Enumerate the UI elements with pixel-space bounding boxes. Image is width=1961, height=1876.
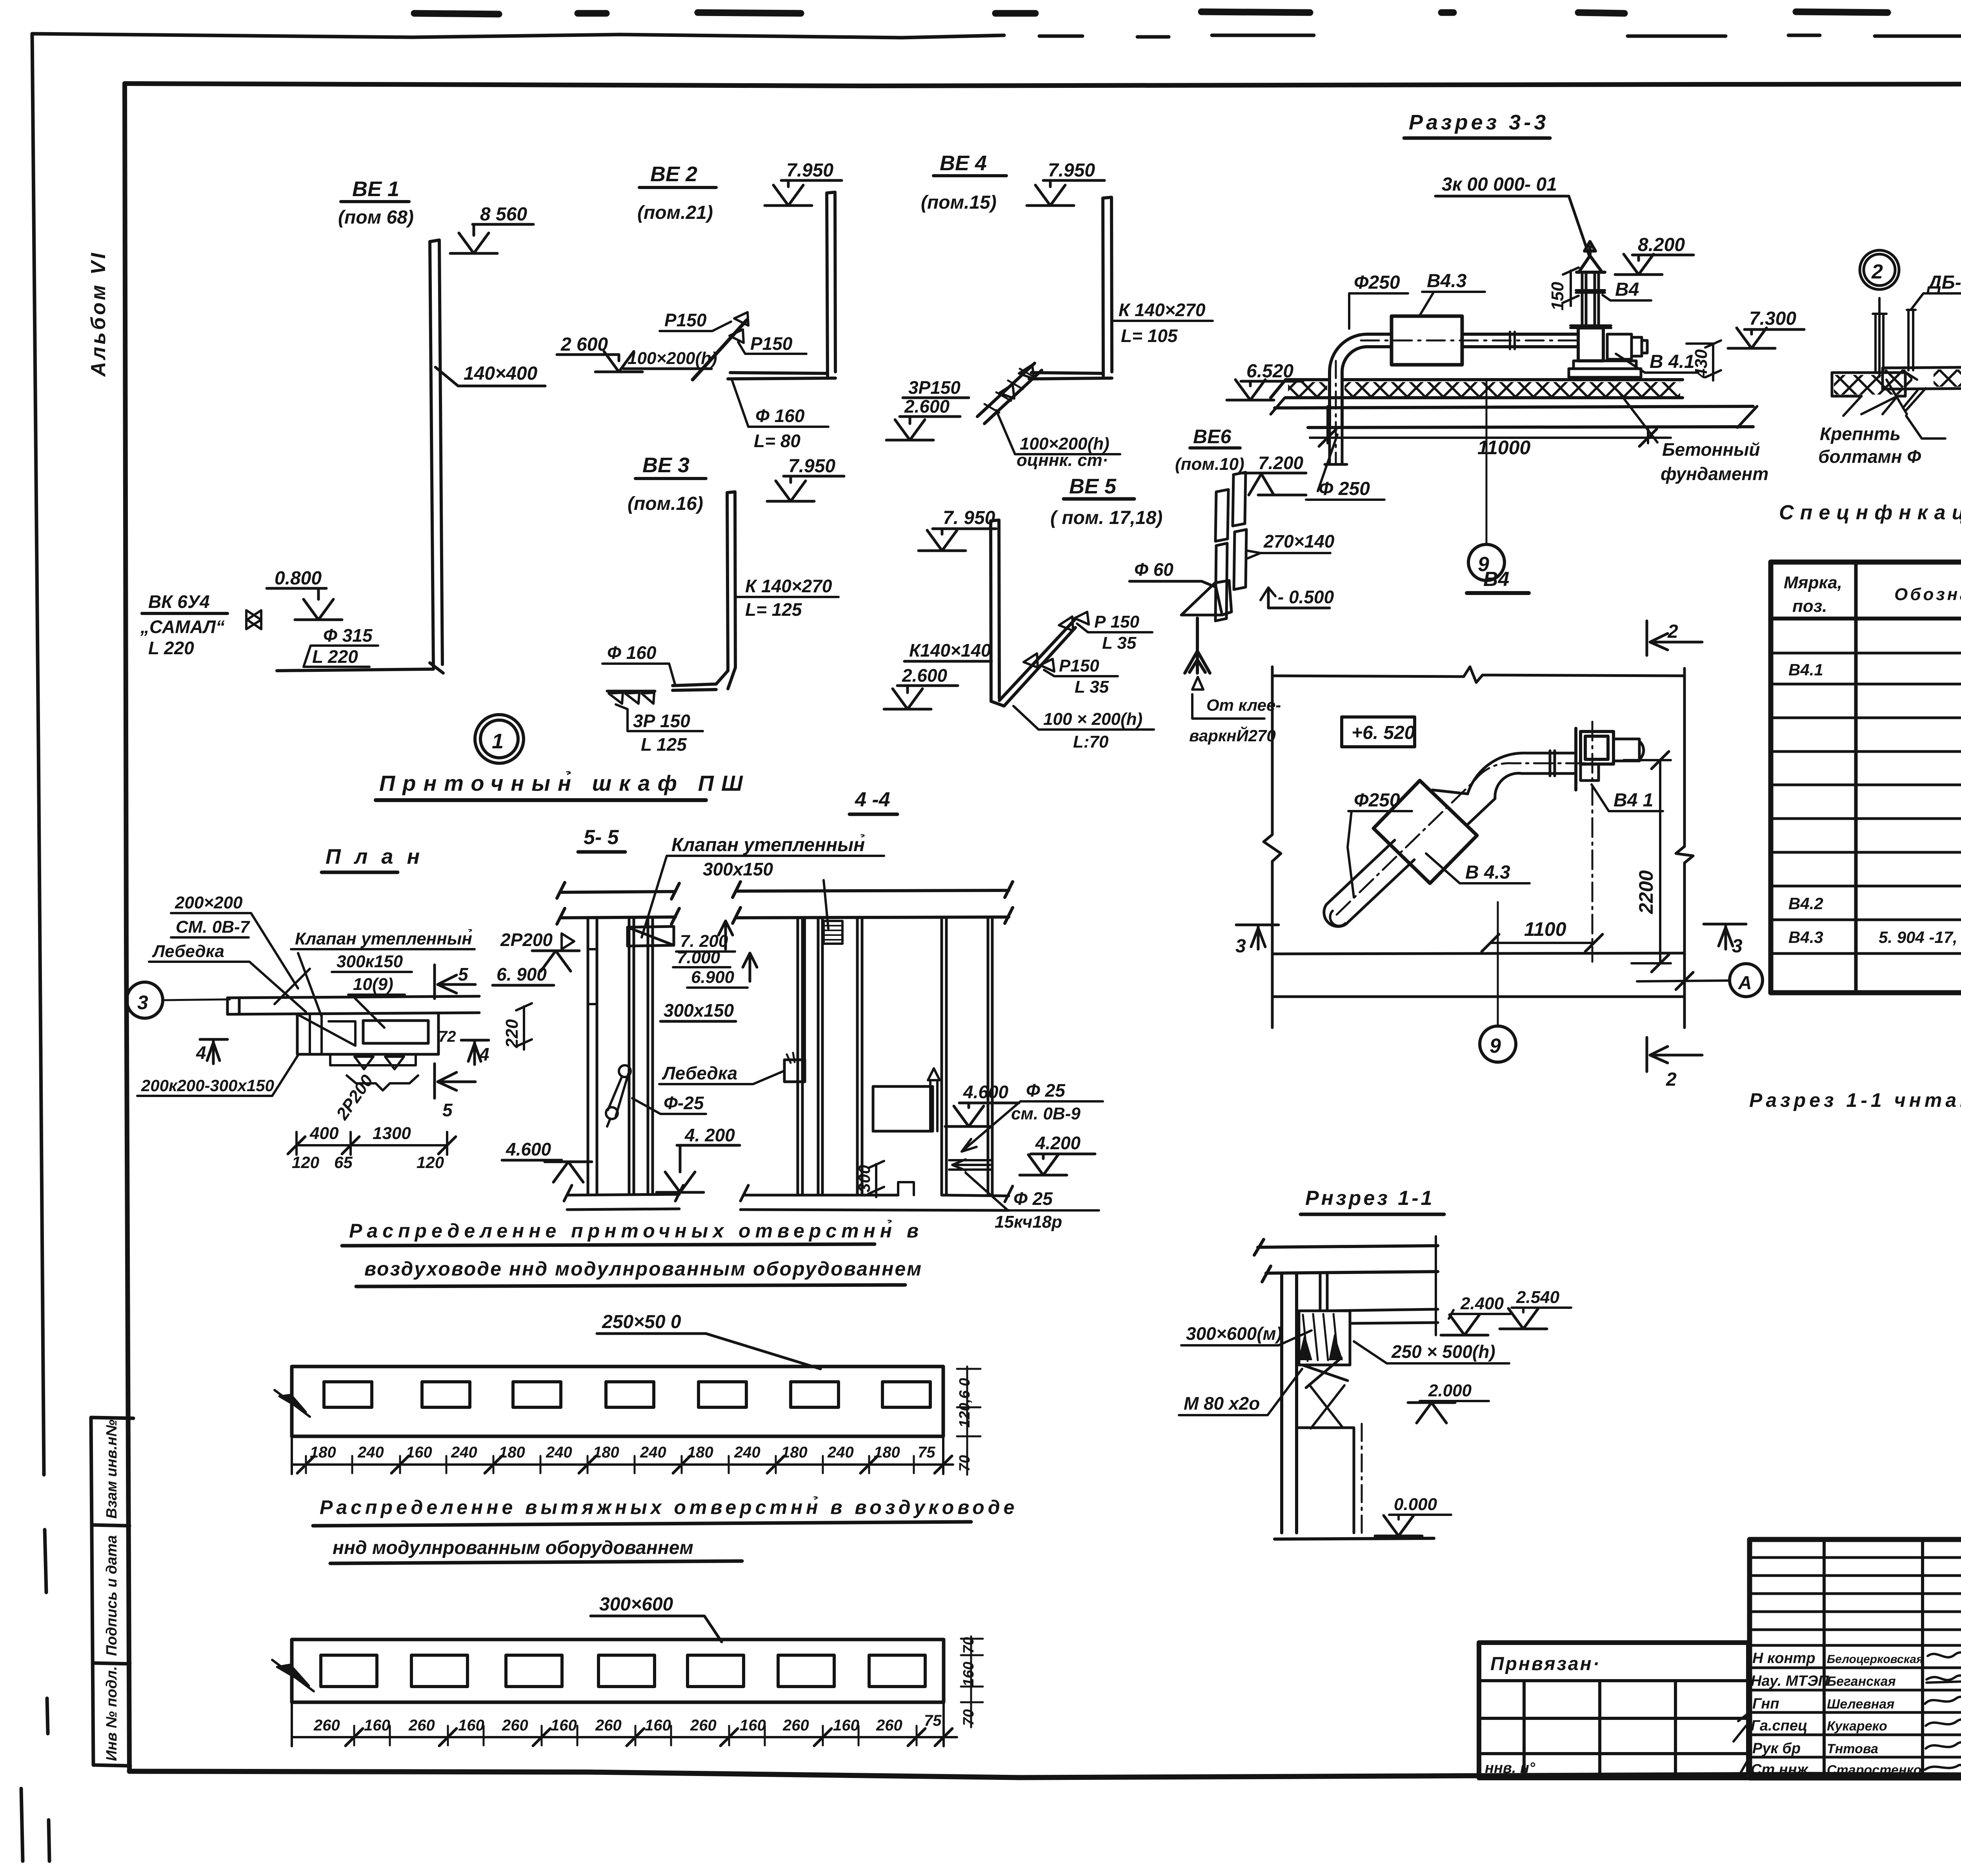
- signature table columns: [1824, 1539, 1961, 1778]
- s11 hatched connector: [1299, 1311, 1350, 1365]
- strip2 break arrow: [277, 1665, 309, 1686]
- VE6 pyramid: [1181, 580, 1232, 615]
- svg-text:3Р 150: 3Р 150: [633, 711, 690, 731]
- svg-text:Рук бр: Рук бр: [1752, 1740, 1801, 1757]
- svg-text:400: 400: [309, 1124, 339, 1143]
- grid circle 2: [1864, 254, 1895, 286]
- svg-text:7. 950: 7. 950: [943, 508, 995, 528]
- svg-text:260: 260: [690, 1717, 717, 1734]
- svg-text:ВК 6У4: ВК 6У4: [148, 591, 210, 612]
- svg-text:3: 3: [1235, 936, 1246, 957]
- svg-text:3к 00 000- 01: 3к 00 000- 01: [1442, 174, 1557, 195]
- svg-text:150: 150: [1548, 282, 1567, 311]
- VE2 duct foot: [728, 373, 835, 379]
- svg-text:- 0.500: - 0.500: [1278, 587, 1334, 607]
- V4 plan centerline: [1337, 722, 1592, 962]
- svg-text:100 × 200(h): 100 × 200(h): [1043, 710, 1142, 729]
- svg-text:8 560: 8 560: [480, 204, 527, 225]
- 4-4 grille: [824, 921, 842, 944]
- label 100x200 ocink VE4: [1017, 434, 1110, 470]
- spec table columns: [1856, 562, 1961, 993]
- plan valve slash: [275, 953, 322, 1017]
- svg-text:260: 260: [313, 1717, 340, 1734]
- svg-text:2Р200: 2Р200: [500, 930, 553, 950]
- page edge scan mark bottom left: [21, 1789, 23, 1861]
- svg-text:К 140×270: К 140×270: [1119, 300, 1206, 320]
- privyazan box: [1479, 1643, 1748, 1778]
- svg-text:2Р200: 2Р200: [332, 1071, 377, 1124]
- svg-text:L 220: L 220: [148, 638, 194, 658]
- svg-text:(пом.15): (пом.15): [921, 192, 997, 213]
- svg-text:300: 300: [855, 1165, 873, 1192]
- section mark 3 right: [1704, 924, 1746, 949]
- strip1 hole 4: [606, 1382, 654, 1407]
- svg-text:ВЕ 2: ВЕ 2: [650, 162, 697, 186]
- svg-text:Разрез 3-3: Разрез 3-3: [1409, 111, 1549, 134]
- svg-text:L 35: L 35: [1075, 677, 1109, 697]
- svg-text:Ф 25: Ф 25: [1013, 1188, 1053, 1209]
- V4 plan silencer rotated: [1373, 781, 1477, 883]
- s11 lower step: [1297, 1428, 1354, 1533]
- svg-text:2.600: 2.600: [902, 665, 948, 686]
- svg-text:воздуховоде ннд модулнрованным: воздуховоде ннд модулнрованным оборудова…: [364, 1258, 922, 1280]
- svg-text:„САМАЛ“: „САМАЛ“: [140, 617, 225, 637]
- svg-text:3: 3: [1732, 936, 1743, 957]
- inner frame left: [125, 84, 129, 1771]
- s33 dim 11000: [1310, 406, 1671, 443]
- s33 chimney cap: [1577, 242, 1605, 272]
- svg-text:75: 75: [918, 1444, 935, 1461]
- label ot klee-varki: [1189, 696, 1281, 745]
- svg-text:ВЕ 4: ВЕ 4: [940, 151, 987, 175]
- svg-text:75: 75: [924, 1712, 942, 1729]
- strip1 break arrow: [279, 1395, 306, 1412]
- strip2 hole 7: [869, 1655, 925, 1687]
- svg-text:В4: В4: [1615, 279, 1639, 300]
- s11 cross mark: [1309, 1385, 1344, 1428]
- svg-text:4.600: 4.600: [963, 1082, 1009, 1102]
- 4-4 small duct with up arrow: [928, 1068, 940, 1131]
- VK 6U4 SAMAL L220 label: [140, 591, 225, 658]
- svg-text:250 × 500(h): 250 × 500(h): [1391, 1341, 1495, 1362]
- svg-text:2: 2: [1871, 260, 1883, 283]
- 4-4 duct at floor: [949, 1159, 992, 1170]
- strip1 hole 5: [699, 1382, 746, 1407]
- strip1 dim chain: [292, 1436, 953, 1474]
- riser VE2 label: [637, 162, 713, 223]
- svg-text:От клее-: От клее-: [1206, 696, 1281, 714]
- s33 slab lines: [1271, 380, 1753, 428]
- strip1 hole 2: [422, 1382, 470, 1407]
- svg-text:180: 180: [781, 1444, 808, 1461]
- svg-text:ДБ-38: ДБ-38: [1926, 272, 1961, 293]
- s11 wall verticals: [1282, 1273, 1297, 1533]
- riser VE4 label: [921, 151, 997, 213]
- svg-text:240: 240: [734, 1444, 760, 1461]
- sheet outer border top: [32, 34, 1004, 38]
- svg-text:160: 160: [406, 1444, 432, 1461]
- svg-text:фундамент: фундамент: [1661, 464, 1768, 484]
- V4 plan fan unit: [1576, 728, 1614, 790]
- svg-text:Кукареко: Кукареко: [1827, 1719, 1887, 1734]
- svg-text:В4: В4: [1483, 568, 1510, 591]
- VE3 duct foot elbow: [673, 668, 735, 690]
- svg-text:1300: 1300: [373, 1124, 411, 1143]
- VE4 duct riser: [1103, 197, 1112, 376]
- 5-5 valve box: [628, 926, 674, 946]
- svg-text:2 600: 2 600: [560, 334, 608, 355]
- s33 duct below roof dashed: [1325, 428, 1347, 464]
- s11 valve flap: [1302, 1358, 1348, 1388]
- strip1 hole 6: [791, 1382, 839, 1407]
- svg-text:Р150: Р150: [1059, 656, 1099, 675]
- title block outer border: [1750, 1539, 1961, 1778]
- svg-text:Н контр: Н контр: [1752, 1650, 1815, 1667]
- svg-text:Клапан утепленнын̉: Клапан утепленнын̉: [295, 929, 472, 948]
- svg-text:240: 240: [451, 1444, 477, 1461]
- svg-text:7.950: 7.950: [786, 160, 833, 181]
- svg-text:Распределенне прнточных отверс: Распределенне прнточных отверстнн̉ в: [349, 1219, 923, 1242]
- label K140x270 L125 VE3: [745, 576, 832, 620]
- 4-4 winch box: [784, 1060, 805, 1082]
- svg-text:7.200: 7.200: [1258, 453, 1304, 473]
- svg-text:L:70: L:70: [1073, 732, 1109, 751]
- svg-text:2: 2: [1667, 621, 1678, 642]
- svg-text:250×50 0: 250×50 0: [602, 1312, 681, 1332]
- svg-text:Лебедка: Лебедка: [662, 1063, 737, 1083]
- grid circle 9 plan: [1480, 1026, 1516, 1062]
- plan duct horizontal: [227, 996, 479, 1014]
- VE6 up arrow flow: [1185, 618, 1210, 673]
- svg-text:Клапан утепленнын̉: Клапан утепленнын̉: [671, 834, 865, 855]
- spec row V4.2: [1788, 894, 1961, 913]
- svg-text:L= 80: L= 80: [754, 431, 800, 451]
- svg-text:260: 260: [595, 1717, 622, 1734]
- svg-text:Беганская: Беганская: [1827, 1674, 1896, 1689]
- plan labels klapan uteplenny 300x150 10(9): [295, 929, 472, 994]
- svg-text:7.300: 7.300: [1749, 308, 1796, 329]
- grille triangles VE2: [729, 312, 748, 343]
- svg-text:2: 2: [1666, 1069, 1677, 1090]
- left stamp column box: [91, 1417, 133, 1766]
- s11 right ext line: [1435, 1236, 1437, 1335]
- deflector symbol: [246, 610, 261, 629]
- label 100x200 L70 VE5: [1043, 710, 1142, 751]
- svg-text:120,6 0: 120,6 0: [957, 1378, 973, 1428]
- svg-text:4. 200: 4. 200: [684, 1125, 735, 1145]
- svg-text:140×400: 140×400: [464, 363, 538, 384]
- svg-text:Р150: Р150: [750, 333, 793, 354]
- svg-text:260: 260: [502, 1717, 528, 1734]
- svg-text:Подпись и дата: Подпись и дата: [104, 1535, 120, 1656]
- svg-text:Обозначенне: Обозначенне: [1894, 585, 1961, 604]
- V4 plan right dim line: [1676, 668, 1693, 1028]
- svg-text:ннв. н°: ннв. н°: [1485, 1760, 1535, 1776]
- svg-text:0.800: 0.800: [275, 568, 322, 589]
- s33 elbow: [1330, 334, 1367, 428]
- s33 silencer: [1392, 316, 1462, 365]
- svg-text:(пом 68): (пом 68): [338, 207, 414, 228]
- svg-text:(пом.10): (пом.10): [1175, 455, 1244, 474]
- s11 duct drop in wall: [1320, 1273, 1327, 1310]
- svg-text:В 4.3: В 4.3: [1465, 862, 1510, 883]
- duct strip 1 outline: [292, 1367, 943, 1436]
- strip2 hole 1: [321, 1655, 377, 1687]
- svg-text:L 125: L 125: [641, 734, 687, 755]
- svg-text:160: 160: [364, 1717, 390, 1734]
- s33 chimney: [1582, 272, 1599, 328]
- svg-text:5: 5: [458, 964, 469, 984]
- svg-text:Ф 315: Ф 315: [323, 625, 373, 646]
- label f315 L220: [312, 625, 373, 667]
- svg-text:К140×140: К140×140: [909, 640, 991, 661]
- svg-text:180: 180: [499, 1444, 525, 1461]
- s11 top slab: [1254, 1239, 1438, 1282]
- svg-text:Шелевная: Шелевная: [1827, 1697, 1894, 1712]
- svg-text:300×600: 300×600: [599, 1594, 673, 1615]
- svg-text:Ф 60: Ф 60: [1134, 559, 1173, 580]
- inner frame bottom: [129, 1771, 1961, 1778]
- svg-text:3Р150: 3Р150: [908, 377, 960, 398]
- strip1 hole 1: [324, 1382, 372, 1407]
- spec header texts: [1784, 573, 1961, 616]
- plan brace: [347, 1075, 418, 1090]
- svg-text:180: 180: [874, 1444, 900, 1461]
- svg-text:(пом.16): (пом.16): [628, 493, 703, 514]
- svg-text:К 140×270: К 140×270: [745, 576, 832, 596]
- spec table header row line: [1771, 617, 1961, 620]
- svg-text:болтамн Ф: болтамн Ф: [1818, 446, 1921, 467]
- strip1 hole 3: [513, 1382, 561, 1407]
- strip2 hole 6: [778, 1655, 834, 1687]
- svg-text:Крепнть: Крепнть: [1820, 424, 1901, 444]
- spec table outer: [1771, 562, 1961, 993]
- s11 ground line: [1275, 1538, 1434, 1539]
- svg-text:L= 105: L= 105: [1121, 326, 1178, 346]
- svg-text:Ф250: Ф250: [1354, 272, 1400, 293]
- svg-text:4 -4: 4 -4: [855, 788, 890, 811]
- svg-text:100×200(h): 100×200(h): [628, 349, 717, 368]
- riser VE5 label: [1050, 475, 1162, 528]
- svg-text:9: 9: [1490, 1035, 1501, 1057]
- spec row V4.3: [1788, 928, 1961, 946]
- grid circle 3: [127, 982, 163, 1018]
- label K140x270 L105 VE4: [1119, 300, 1206, 346]
- svg-text:Прнвязан·: Прнвязан·: [1490, 1654, 1601, 1674]
- 4-4 walls: [798, 917, 992, 1194]
- VE4 grille diagonal with hatch: [977, 363, 1042, 424]
- label betonny fundament: [1661, 439, 1768, 484]
- V4 plan elbow: [1432, 753, 1526, 825]
- VE5 grille diagonal: [991, 619, 1075, 706]
- svg-text:2.000: 2.000: [1428, 1381, 1472, 1400]
- svg-text:Ф 25: Ф 25: [1026, 1080, 1066, 1101]
- grid circle 9 s33: [1468, 544, 1504, 580]
- svg-text:Инв № подл.: Инв № подл.: [104, 1666, 120, 1761]
- riser VE3 label: [628, 453, 703, 514]
- svg-text:7.950: 7.950: [1048, 160, 1095, 181]
- svg-text:Ф-25: Ф-25: [664, 1093, 704, 1113]
- V4 plan diagonal duct lower + cap: [1326, 840, 1414, 924]
- svg-text:Спецнфнкацня вентнляцнонных: Спецнфнкацня вентнляцнонных Установок: [1779, 501, 1961, 524]
- 5-5 pulley cable: [619, 1065, 631, 1077]
- section mark 5 bottom: [435, 1064, 475, 1098]
- svg-text:ВЕ 3: ВЕ 3: [642, 453, 689, 477]
- signature rows: [1750, 1645, 1961, 1757]
- strip2 hole 5: [688, 1655, 744, 1687]
- svg-text:В 4.1: В 4.1: [1650, 351, 1695, 372]
- VE6 slats: [1215, 472, 1246, 621]
- s33 roof hatched band: [1286, 380, 1683, 398]
- section mark 4 right: [461, 1040, 489, 1064]
- svg-text:4: 4: [479, 1044, 489, 1064]
- svg-text:2200: 2200: [1635, 870, 1657, 914]
- section mark 4 left: [200, 1039, 227, 1064]
- strip1 hole 7: [882, 1382, 930, 1407]
- plan labels 200x200 sm OV-7 lebedka: [152, 893, 251, 961]
- svg-text:Гнп: Гнп: [1752, 1696, 1779, 1712]
- svg-text:5. 904 -17, вып.1: 5. 904 -17, вып.1: [1879, 928, 1961, 946]
- svg-text:72: 72: [438, 1028, 456, 1045]
- page edge scan dashes top: [414, 12, 1961, 15]
- svg-text:Р150: Р150: [664, 310, 707, 330]
- s11 horizontal duct: [1327, 1309, 1438, 1323]
- s33 fan base: [1569, 361, 1641, 377]
- svg-text:Рнзрез 1-1: Рнзрез 1-1: [1305, 1187, 1434, 1210]
- duct strip 2 outline: [292, 1639, 944, 1702]
- svg-text:Взам инв.н№: Взам инв.н№: [104, 1419, 120, 1519]
- 4-4 top slab: [733, 882, 1013, 923]
- svg-text:180: 180: [687, 1444, 713, 1461]
- VE5 duct riser: [991, 520, 999, 701]
- svg-text:Альбом VI: Альбом VI: [87, 251, 110, 377]
- svg-text:L 35: L 35: [1102, 633, 1137, 653]
- svg-text:260: 260: [782, 1717, 809, 1734]
- sheet outer border left: [32, 34, 44, 1475]
- svg-text:270×140: 270×140: [1263, 531, 1335, 551]
- svg-text:6. 900: 6. 900: [497, 964, 547, 984]
- spec row V4.1: [1788, 660, 1961, 846]
- svg-text:70: 70: [957, 1455, 973, 1472]
- svg-text:300х150: 300х150: [703, 859, 773, 879]
- bolt roof band: [1832, 373, 1905, 396]
- label krepit boltami: [1818, 424, 1921, 467]
- svg-text:4: 4: [196, 1043, 206, 1063]
- 5-5 walls: [588, 918, 653, 1194]
- svg-text:2.540: 2.540: [1516, 1288, 1560, 1307]
- strip2 hole 4: [598, 1655, 655, 1687]
- svg-text:1100: 1100: [1524, 918, 1566, 940]
- svg-text:240: 240: [357, 1444, 384, 1461]
- svg-text:см. 0В-9: см. 0В-9: [1011, 1104, 1081, 1123]
- svg-text:300к150: 300к150: [337, 952, 403, 971]
- svg-text:Лебедка: Лебедка: [152, 942, 224, 961]
- svg-text:11000: 11000: [1477, 437, 1531, 459]
- section mark 3 left: [1236, 925, 1279, 949]
- VE4 duct foot: [1029, 373, 1112, 379]
- svg-text:ВЕ 5: ВЕ 5: [1069, 475, 1117, 498]
- svg-text:ннд модулнрованным оборудован: ннд модулнрованным оборудованнем: [333, 1538, 693, 1558]
- svg-text:Разрез 1-1 чнтать совместно с: Разрез 1-1 чнтать совместно с лнстом 0В1…: [1749, 1089, 1961, 1111]
- grid line 9 s33: [1486, 380, 1488, 544]
- 4-4 floor: [740, 1195, 1009, 1210]
- svg-text:Ф 160: Ф 160: [755, 406, 805, 426]
- V4 plan top boundary: [1272, 667, 1684, 682]
- svg-text:260: 260: [408, 1717, 435, 1734]
- s33 motor: [1607, 334, 1647, 359]
- s33 fan box: [1578, 328, 1603, 361]
- svg-text:варкнЙ270: варкнЙ270: [1189, 726, 1276, 745]
- svg-text:160: 160: [551, 1717, 577, 1734]
- VE2 grille diagonal: [693, 320, 747, 380]
- V4 plan duct from fan: [1522, 751, 1576, 776]
- label 3R150 L125 VE3: [633, 711, 690, 755]
- svg-text:Ф 250: Ф 250: [1319, 479, 1370, 499]
- riser VE1 label: [338, 177, 414, 228]
- svg-text:4.200: 4.200: [1035, 1133, 1081, 1153]
- svg-text:1: 1: [492, 730, 504, 753]
- inner frame top: [125, 84, 1961, 86]
- svg-text:0.000: 0.000: [1394, 1495, 1437, 1514]
- svg-text:120: 120: [292, 1153, 319, 1172]
- svg-text:(пом.21): (пом.21): [637, 202, 713, 223]
- svg-text:М 80 х2о: М 80 х2о: [1184, 1393, 1260, 1414]
- svg-text:Ф 160: Ф 160: [607, 642, 657, 663]
- strip2 dim chain: [292, 1702, 957, 1746]
- VE3 duct riser: [727, 492, 735, 671]
- svg-text:6.900: 6.900: [691, 968, 735, 987]
- strip2 hole 2: [411, 1655, 468, 1687]
- svg-text:300х150: 300х150: [664, 1000, 734, 1021]
- svg-text:П л а н: П л а н: [326, 845, 424, 868]
- svg-text:поз.: поз.: [1792, 597, 1827, 616]
- svg-text:Нау. МТЭП: Нау. МТЭП: [1751, 1673, 1829, 1689]
- svg-text:160: 160: [645, 1717, 671, 1734]
- svg-text:Га.спец: Га.спец: [1751, 1718, 1808, 1734]
- svg-text:120: 120: [417, 1153, 444, 1172]
- svg-text:160: 160: [458, 1717, 484, 1734]
- svg-text:3: 3: [137, 992, 148, 1014]
- svg-text:200к200-300х150: 200к200-300х150: [141, 1076, 274, 1095]
- svg-text:В4.2: В4.2: [1788, 894, 1823, 913]
- grid line 9 plan: [1497, 902, 1499, 1027]
- 5-5 floor: [564, 1185, 683, 1210]
- section mark 2 bottom: [1647, 1037, 1702, 1072]
- label F160 L80 VE2: [754, 406, 805, 451]
- svg-text:180: 180: [593, 1444, 619, 1461]
- svg-text:Белоцерковская: Белоцерковская: [1827, 1653, 1923, 1666]
- svg-text:7.000: 7.000: [677, 948, 720, 967]
- svg-text:240: 240: [640, 1444, 666, 1461]
- svg-text:160: 160: [740, 1717, 766, 1734]
- svg-text:65: 65: [334, 1153, 353, 1172]
- plan cabinet box: [297, 1014, 438, 1054]
- svg-text:2.600: 2.600: [904, 396, 950, 417]
- svg-text:300×600(м): 300×600(м): [1186, 1323, 1282, 1344]
- svg-text:ВЕ 1: ВЕ 1: [352, 177, 399, 201]
- riser VE6 label: [1175, 426, 1244, 474]
- svg-text:200×200: 200×200: [175, 893, 243, 912]
- svg-text:2.400: 2.400: [1460, 1294, 1504, 1313]
- svg-text:Ст ннж.: Ст ннж.: [1751, 1761, 1812, 1778]
- +6.520 box: [1342, 717, 1415, 747]
- svg-text:7.950: 7.950: [788, 456, 835, 477]
- svg-text:+6. 520: +6. 520: [1352, 722, 1415, 743]
- section mark 2 top: [1647, 621, 1702, 655]
- svg-text:В4.3: В4.3: [1788, 928, 1823, 946]
- signature squiggles: [1928, 1652, 1961, 1658]
- svg-text:ВЕ6: ВЕ6: [1193, 426, 1232, 448]
